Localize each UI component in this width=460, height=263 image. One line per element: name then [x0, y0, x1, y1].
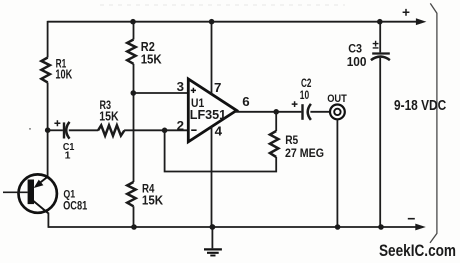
node C1 junction	[45, 127, 51, 133]
resistor R3	[98, 125, 124, 135]
wire output	[235, 111, 301, 113]
capacitor C2	[301, 104, 303, 120]
wire C2 to jack	[310, 111, 329, 113]
svg-text:R5: R5	[285, 133, 298, 147]
wire C1 to R3	[69, 129, 98, 131]
svg-text:LF351: LF351	[190, 108, 226, 122]
wire jack to bottom rail	[336, 119, 338, 227]
svg-text:9-18 VDC: 9-18 VDC	[394, 97, 446, 114]
svg-text:3: 3	[177, 79, 184, 94]
ground	[204, 227, 222, 256]
supply arrow bottom	[415, 224, 426, 231]
wire R5 bottom feedback	[165, 130, 277, 171]
node pin7 top	[209, 19, 215, 25]
svg-text:15K: 15K	[99, 109, 118, 123]
svg-text:10K: 10K	[55, 67, 72, 81]
svg-text:15K: 15K	[141, 51, 163, 66]
resistor R5	[270, 131, 279, 157]
wire C3 upper	[379, 22, 381, 53]
jack OUT	[330, 105, 345, 120]
wire top rail	[48, 21, 418, 23]
svg-text:7: 7	[214, 80, 221, 95]
pin 7 wire	[211, 22, 213, 95]
minus label bottom right	[408, 218, 415, 220]
wire collector to bottom rail	[47, 213, 49, 228]
node jack bottom	[335, 224, 341, 230]
pin 4 wire	[211, 127, 213, 228]
scan smudge top	[100, 4, 345, 6]
wire C3 lower	[379, 58, 381, 227]
op-amp U1	[188, 79, 236, 142]
wire R4 to bottom rail	[133, 206, 135, 227]
capacitor C3	[372, 52, 390, 54]
node feedback tap	[162, 128, 168, 134]
wire R3 to pin2	[124, 129, 188, 131]
svg-text:2: 2	[177, 118, 184, 133]
plus label C3	[373, 41, 379, 48]
wire R2R4 rail	[133, 22, 135, 40]
speck artifact	[29, 128, 31, 130]
plus label C2	[292, 101, 298, 107]
svg-text:1: 1	[65, 150, 71, 162]
resistor R4	[127, 182, 136, 206]
wire pin 3	[133, 92, 188, 94]
plus label C1	[54, 120, 60, 126]
node top R2	[130, 19, 136, 25]
wire left rail lower	[47, 83, 49, 177]
svg-text:4: 4	[215, 124, 223, 139]
node R4 bottom	[131, 224, 137, 230]
svg-text:OUT: OUT	[327, 93, 347, 105]
resistor R1	[41, 58, 50, 83]
wire R5 top	[275, 112, 277, 131]
node pin3 tap	[131, 90, 137, 96]
svg-text:27 MEG: 27 MEG	[285, 146, 324, 160]
node C3 bottom	[378, 224, 384, 230]
wire R2 to R4	[133, 64, 135, 182]
plus label top right	[403, 9, 410, 16]
resistor R2	[127, 40, 136, 64]
capacitor C1	[63, 122, 65, 138]
node C3 top	[377, 19, 383, 25]
transistor Q1	[3, 174, 57, 213]
wire bottom rail	[48, 226, 417, 228]
svg-text:SeekIC.com: SeekIC.com	[379, 241, 456, 260]
svg-text:OC81: OC81	[63, 199, 88, 212]
wire C1 left	[48, 129, 63, 131]
svg-text:10: 10	[300, 88, 310, 102]
supply arrow top	[416, 18, 427, 25]
wire left rail upper	[47, 21, 49, 58]
node output	[273, 109, 279, 115]
svg-text:100: 100	[347, 54, 367, 69]
node ground tap	[210, 224, 216, 230]
brace 9-18 VDC	[430, 3, 437, 243]
svg-text:6: 6	[242, 94, 249, 109]
svg-text:15K: 15K	[142, 193, 164, 208]
